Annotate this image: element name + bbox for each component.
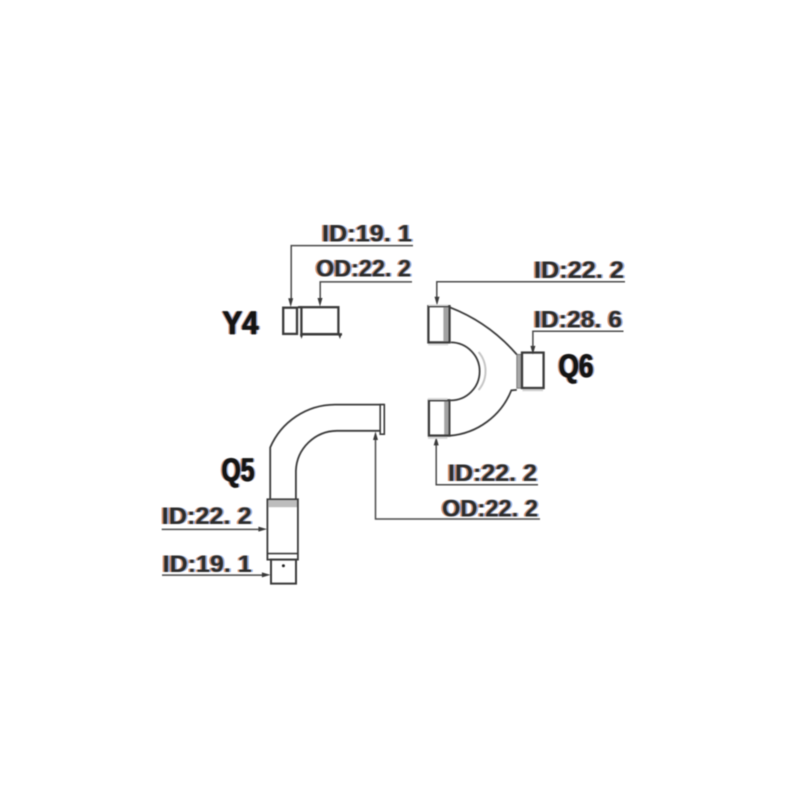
leader line ID:28.6 (Q6 right port) — [533, 331, 624, 346]
svg-text:OD:22. 2: OD:22. 2 — [316, 255, 411, 282]
Q5 collar gray band — [268, 500, 297, 507]
Q5 body inner line — [267, 553, 298, 555]
svg-text:Q5: Q5 — [222, 452, 255, 488]
arrowhead down onto Y4 small rect — [288, 298, 293, 307]
Q6 right port gray collar — [517, 354, 522, 388]
leader line ID:22.2 (Q6 bottom) — [436, 444, 538, 485]
svg-text:ID:28. 6: ID:28. 6 — [534, 306, 622, 333]
Q6 bottom sleeve top halo — [428, 398, 448, 400]
Y4 right flange tick — [338, 334, 342, 339]
leader line ID:22.2 (Q6 top) — [437, 282, 625, 298]
svg-text:Q6: Q6 — [559, 348, 594, 384]
arrowhead up onto Q5 arm — [373, 431, 378, 440]
Q6 outer wall lower arc with jog — [450, 390, 517, 436]
leader line ID:19.1 (top) — [291, 246, 413, 300]
svg-text:OD:22. 2: OD:22. 2 — [442, 495, 538, 522]
Q6 right port rect — [522, 353, 544, 388]
Q6 inner arc — [451, 342, 480, 400]
svg-text:ID:22. 2: ID:22. 2 — [448, 460, 537, 487]
leader line ID:19.1 (Q5) — [162, 574, 263, 576]
arrowhead right onto Q5 bottom cap — [262, 572, 271, 577]
svg-text:ID:22. 2: ID:22. 2 — [534, 257, 624, 284]
Q6 bottom-left sleeve — [429, 400, 449, 435]
leader line ID:22.2 (Q5) — [162, 528, 260, 530]
leader line OD:22.2 (Q5 arm) — [376, 439, 541, 519]
Q5 top edge and outer arc and left edge — [270, 405, 384, 500]
Q5 bottom edge, inner arc and right edge — [296, 431, 380, 500]
Y4 bottom flange line — [301, 333, 343, 335]
arrowhead up onto Q6 bottom sleeve — [434, 437, 439, 446]
Q5 bottom cap — [271, 560, 296, 584]
svg-text:ID:19. 1: ID:19. 1 — [322, 220, 412, 247]
arrowhead down onto Q6 right port — [530, 346, 535, 355]
arrowhead down onto Y4 big rect — [318, 298, 323, 307]
Y4 big rect top edge extension — [298, 306, 302, 308]
Y4 small left rect — [283, 308, 297, 334]
Y4 big rect left edge extended below — [300, 334, 302, 337]
arrowhead right onto Q5 body — [258, 527, 267, 532]
Q6 right port bottom shadow — [523, 389, 544, 391]
Q5 arm end cap — [380, 405, 384, 435]
svg-text:ID:19. 1: ID:19. 1 — [163, 551, 252, 578]
svg-text:ID:22. 2: ID:22. 2 — [162, 503, 252, 530]
Y4 left flange tick — [300, 334, 303, 339]
Q6 bottom sleeve bottom halo — [428, 437, 448, 439]
Q6 top-left sleeve — [428, 306, 449, 342]
Q6 top sleeve bottom halo — [428, 344, 448, 346]
arrowhead down onto Q6 top sleeve — [435, 297, 440, 306]
Q5 bottom cap dot — [282, 564, 285, 567]
Q6 outer wall upper arc — [450, 307, 517, 354]
svg-text:Y4: Y4 — [223, 305, 259, 341]
Q5 wide body section — [267, 499, 298, 559]
Q6 top sleeve top halo — [428, 304, 448, 306]
leader line OD:22.2 (top) — [320, 282, 412, 300]
Q6 bottom-left sleeve gray band — [444, 401, 448, 434]
Q6 inner ghost arc (scan shading) — [479, 352, 486, 390]
Y4 big right rect — [301, 307, 338, 334]
Q6 top-left sleeve gray band — [443, 307, 448, 341]
